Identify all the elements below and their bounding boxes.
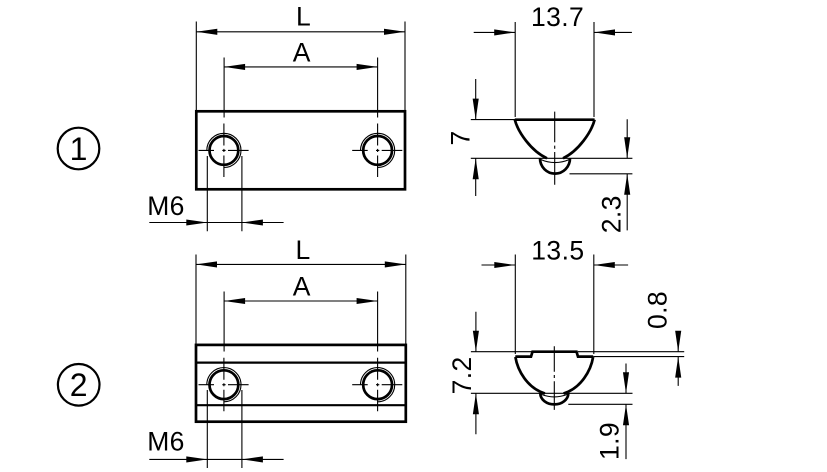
svg-text:13.7: 13.7: [531, 2, 584, 32]
svg-text:A: A: [293, 272, 311, 302]
svg-text:A: A: [293, 38, 311, 68]
svg-text:L: L: [296, 2, 311, 32]
svg-text:L: L: [296, 235, 311, 265]
svg-text:M6: M6: [147, 191, 185, 221]
svg-text:2: 2: [70, 367, 88, 403]
svg-text:7.2: 7.2: [447, 356, 477, 394]
svg-text:13.5: 13.5: [531, 236, 584, 266]
svg-text:0.8: 0.8: [643, 291, 673, 329]
svg-text:2.3: 2.3: [597, 195, 627, 233]
svg-text:1: 1: [70, 131, 88, 167]
svg-text:M6: M6: [147, 427, 185, 457]
svg-text:7: 7: [446, 130, 476, 145]
svg-text:1.9: 1.9: [595, 422, 625, 460]
